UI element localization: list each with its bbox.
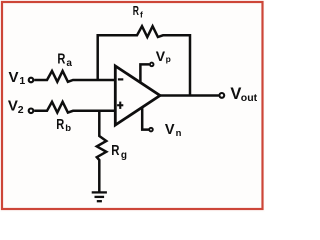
svg-text:b: b bbox=[65, 123, 71, 134]
svg-text:R: R bbox=[56, 116, 64, 133]
svg-text:V: V bbox=[165, 122, 175, 138]
svg-text:R: R bbox=[133, 4, 139, 18]
svg-text:f: f bbox=[140, 9, 143, 19]
svg-text:n: n bbox=[176, 128, 182, 139]
svg-text:g: g bbox=[121, 150, 127, 161]
svg-text:2: 2 bbox=[18, 104, 24, 116]
svg-text:R: R bbox=[57, 51, 65, 68]
svg-text:out: out bbox=[241, 92, 258, 104]
svg-text:p: p bbox=[166, 54, 171, 64]
svg-text:V: V bbox=[156, 48, 166, 64]
svg-text:V: V bbox=[230, 85, 241, 103]
svg-text:1: 1 bbox=[19, 75, 25, 87]
svg-text:V: V bbox=[8, 98, 18, 115]
svg-text:R: R bbox=[111, 142, 119, 159]
svg-text:V: V bbox=[9, 69, 19, 86]
svg-text:a: a bbox=[66, 58, 72, 69]
